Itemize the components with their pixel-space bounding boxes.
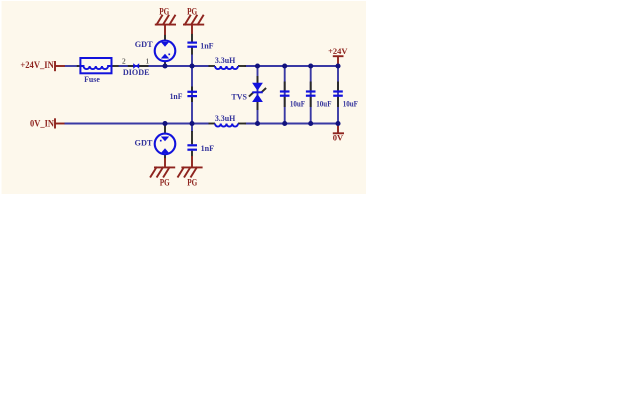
- svg-text:TVS: TVS: [231, 91, 247, 101]
- svg-text:PG: PG: [159, 7, 169, 17]
- svg-text:PG: PG: [187, 7, 197, 17]
- svg-text:0V: 0V: [333, 133, 344, 143]
- svg-text:DIODE: DIODE: [123, 67, 150, 77]
- svg-text:2: 2: [122, 57, 126, 66]
- svg-text:Fuse: Fuse: [84, 74, 100, 84]
- svg-text:PG: PG: [187, 178, 197, 188]
- svg-text:1nF: 1nF: [201, 143, 215, 153]
- svg-text:10uF: 10uF: [343, 98, 358, 108]
- svg-text:GDT: GDT: [135, 39, 153, 49]
- svg-text:0V_IN: 0V_IN: [30, 119, 54, 129]
- svg-text:10uF: 10uF: [316, 98, 331, 108]
- svg-text:+24V_IN: +24V_IN: [20, 61, 54, 71]
- svg-text:1nF: 1nF: [200, 40, 213, 50]
- svg-text:1nF: 1nF: [170, 91, 183, 101]
- svg-text:+24V: +24V: [328, 46, 348, 56]
- svg-text:PG: PG: [160, 178, 170, 188]
- svg-text:3.3uH: 3.3uH: [215, 113, 236, 123]
- svg-text:1: 1: [146, 57, 150, 66]
- svg-text:GDT: GDT: [135, 137, 153, 147]
- svg-text:3.3uH: 3.3uH: [215, 55, 236, 65]
- svg-text:10uF: 10uF: [290, 98, 305, 108]
